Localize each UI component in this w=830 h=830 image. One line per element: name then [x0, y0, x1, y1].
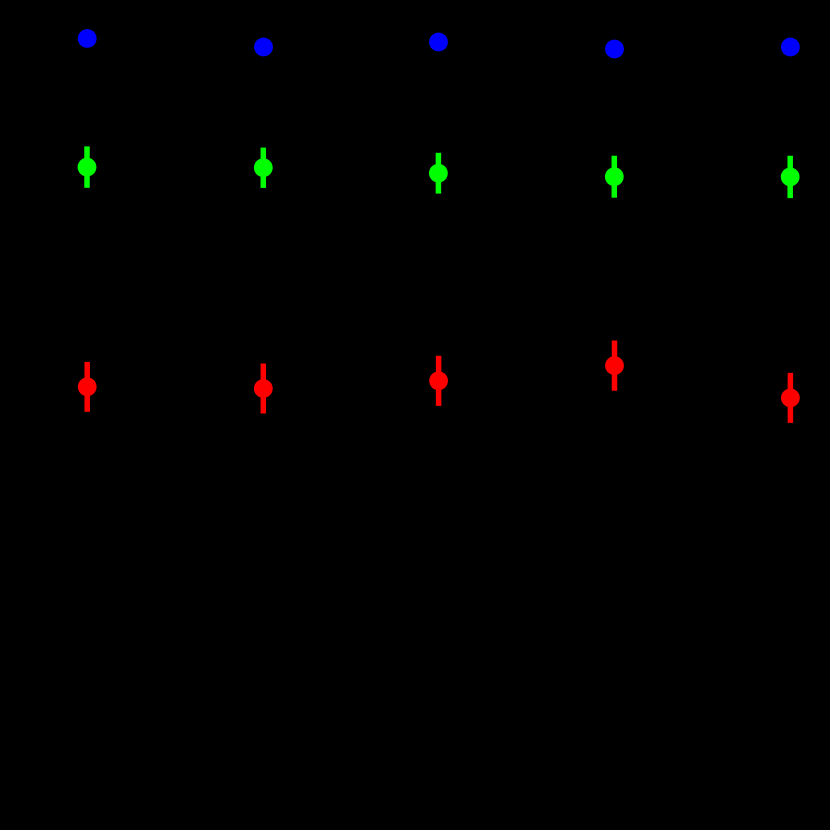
blue point 1: [78, 29, 97, 48]
green errorbar 4: [612, 156, 618, 198]
red point 1: [78, 377, 97, 396]
green errorbar 2: [261, 148, 267, 188]
green point 3: [429, 164, 448, 183]
blue point 2: [254, 38, 273, 57]
red errorbar 4: [612, 341, 618, 391]
red point 5: [781, 389, 800, 408]
red point 3: [429, 371, 448, 390]
red point 2: [254, 379, 273, 398]
blue point 4: [605, 40, 624, 59]
green point 5: [781, 168, 800, 187]
red errorbar 3: [436, 356, 442, 406]
red errorbar 5: [788, 373, 794, 423]
green point 2: [254, 158, 273, 177]
blue point 3: [429, 33, 448, 52]
green errorbar 1: [84, 146, 90, 187]
green errorbar 5: [787, 156, 793, 198]
blue point 5: [781, 38, 800, 57]
green point 4: [605, 167, 624, 186]
red errorbar 2: [261, 364, 267, 414]
red point 4: [605, 356, 624, 375]
green point 1: [78, 158, 97, 177]
green errorbar 3: [436, 153, 442, 194]
red errorbar 1: [84, 362, 90, 412]
